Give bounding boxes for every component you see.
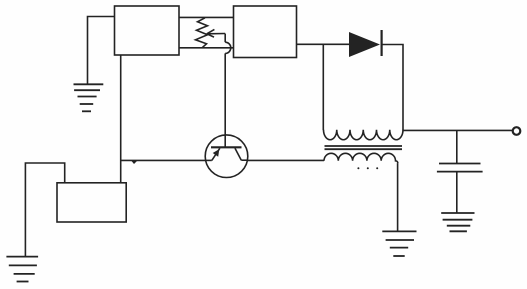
dots (turns ellipsis under secondary) [357,167,378,169]
wire capacitor bottom lead [456,172,458,213]
ground (below capacitor) [441,213,474,231]
transistor Q1 collector lead [235,148,248,160]
ground (bottom-left) [6,257,38,282]
wire secondary right end down to ground [397,163,399,231]
capacitor C1 plates [437,164,483,172]
wire U1 bottom-right pin to block U2 [179,47,234,49]
wire output rail (top right horizontal) [403,129,513,131]
diode D1 cathode bar [381,30,383,56]
wire U1 bottom down to block U3 [120,55,122,183]
potentiometer R1 wiper arrow [207,29,225,37]
wire hop (arc over bottom wire) [225,42,231,53]
ground (below transformer secondary) [382,231,416,256]
diode D1 (filled triangle) [349,32,380,57]
block U2 (top-middle rectangle) [234,6,297,58]
wire junction down to transformer primary left [322,44,324,130]
transistor Q1 body circle [205,135,248,178]
ground (below U1 left pin) [74,84,104,111]
wire diode cathode to right corner [382,45,403,131]
potentiometer R1 (vertical zigzag) [196,18,208,48]
wire left rail to transistor emitter [121,159,206,161]
wire wiper down to transistor base [224,53,226,146]
wire U3 top-left pin to ground [25,163,64,256]
wire U2 right pin to diode anode [297,43,350,45]
wire U1 top-right pin to block U2 (through pot top) [179,16,234,18]
block U1 (top-left rectangle) [115,6,180,55]
transformer T1 secondary winding (5 loops, bumps up) [324,153,398,163]
output terminal (open circle) [513,127,521,135]
junction blob on left rail [132,161,138,164]
transformer T1 primary winding (6 loops, bumps down) [324,130,404,140]
wire transistor collector to transformer secondary [248,159,324,161]
wire capacitor top lead [456,130,458,163]
wire U1 left pin to ground [88,17,115,85]
transistor Q1 emitter lead with arrow [205,148,220,160]
transistor Q1 base bar [211,146,242,148]
transformer T1 core (double bar) [325,146,403,149]
wire wiper vertical (upper part) [224,34,226,43]
block U3 (bottom-left rectangle) [57,183,126,222]
